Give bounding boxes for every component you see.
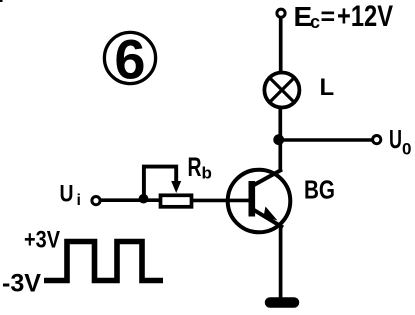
wire: Ec terminal to lamp — [279, 17, 283, 73]
wire: node to transistor collector — [278, 138, 282, 172]
wire: node to Uo terminal — [278, 138, 372, 142]
svg-text:U: U — [60, 181, 74, 208]
ground — [270, 297, 294, 308]
svg-text:BG: BG — [304, 175, 335, 205]
label Uo — [389, 124, 411, 159]
terminal Ec — [277, 9, 285, 17]
label Rb — [188, 152, 212, 183]
svg-text:b: b — [202, 164, 212, 183]
label Ui — [60, 181, 81, 210]
svg-text:c: c — [310, 12, 320, 32]
wire: resistor to base — [192, 199, 251, 203]
svg-text:U: U — [389, 124, 402, 154]
circled figure number 6 — [104, 28, 155, 91]
svg-text:R: R — [188, 152, 202, 182]
resistor Rb — [161, 195, 192, 207]
lamp L — [264, 73, 299, 108]
wire: emitter to ground — [279, 226, 283, 298]
svg-text:0: 0 — [402, 140, 411, 159]
transistor BG (NPN) — [228, 170, 291, 233]
terminal Ui — [92, 197, 100, 205]
svg-text:i: i — [77, 192, 81, 209]
svg-text:+3V: +3V — [24, 227, 60, 254]
wire: lamp to collector node — [278, 108, 282, 145]
terminal Uo — [373, 136, 381, 144]
svg-text:=: = — [321, 3, 336, 31]
label Ec = +12V — [294, 0, 394, 33]
node: base junction — [139, 194, 149, 204]
svg-text:+12V: +12V — [337, 0, 393, 33]
wiper arm of rheostat Rb — [144, 167, 181, 199]
svg-text:L: L — [320, 74, 335, 101]
node: collector-output junction — [273, 134, 284, 145]
svg-text:6: 6 — [114, 28, 145, 91]
input square waveform — [44, 242, 163, 281]
wire: Ui terminal to resistor — [100, 198, 160, 202]
svg-text:-3V: -3V — [2, 270, 41, 298]
